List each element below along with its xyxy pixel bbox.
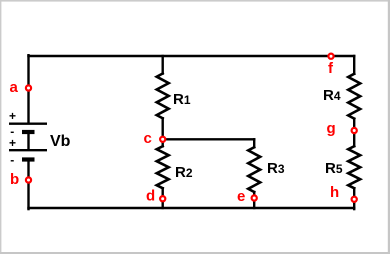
svg-text:R4: R4 <box>323 87 341 104</box>
svg-text:b: b <box>10 171 19 188</box>
resistor R2 <box>157 146 169 188</box>
wire: R2 to bottom wire through node d <box>161 188 163 208</box>
resistor R1 <box>157 74 169 119</box>
svg-text:c: c <box>144 130 152 147</box>
node d <box>160 196 165 201</box>
wire: middle branch lead from top wire to R1 <box>161 56 163 74</box>
resistor R5 <box>348 146 360 188</box>
wire: battery bottom stem + bottom horizontal <box>27 161 29 209</box>
svg-text:R1: R1 <box>173 91 191 108</box>
wire: R3 top lead <box>253 139 255 147</box>
wire: R1 to R2 through node c <box>161 118 163 146</box>
battery Vb plates <box>9 124 47 160</box>
node a <box>26 85 31 90</box>
svg-text:+: + <box>9 136 16 150</box>
node c <box>160 137 165 142</box>
node h <box>352 197 357 202</box>
svg-text:-: - <box>10 153 14 167</box>
battery plate short - (cell 2) <box>22 157 35 161</box>
svg-text:+: + <box>9 109 16 123</box>
svg-text:g: g <box>327 120 336 137</box>
wire: right vertical lead from top wire to R4 <box>353 56 355 74</box>
battery plate short - (cell 1) <box>22 130 35 134</box>
svg-text:R2: R2 <box>175 164 193 181</box>
svg-text:Vb: Vb <box>50 133 71 150</box>
wire: left vertical (top) + top horizontal <box>27 54 29 124</box>
battery mid stem <box>27 133 29 150</box>
node b <box>26 177 31 182</box>
node g <box>352 128 357 133</box>
svg-text:a: a <box>10 79 19 96</box>
wire: R4 to R5 through node g <box>353 119 355 147</box>
wire: top horizontal <box>27 55 355 57</box>
wire: R3 to bottom wire through node e <box>253 192 255 208</box>
wire: bottom horizontal <box>27 207 355 209</box>
battery plate long + (cell 2) <box>9 149 47 151</box>
wire: node c horizontal to R3 branch <box>163 138 255 140</box>
resistor R4 <box>348 74 360 119</box>
image border frame <box>0 0 390 2</box>
svg-text:R3: R3 <box>267 160 285 177</box>
resistor R3 <box>248 147 260 192</box>
battery plate long + (cell 1) <box>9 122 47 124</box>
svg-text:d: d <box>146 188 155 205</box>
svg-text:R5: R5 <box>325 160 343 177</box>
svg-text:h: h <box>330 184 339 201</box>
svg-text:e: e <box>237 188 245 205</box>
node e <box>252 195 257 200</box>
wire: R5 to bottom wire through node h <box>353 188 355 209</box>
node f <box>328 54 333 59</box>
